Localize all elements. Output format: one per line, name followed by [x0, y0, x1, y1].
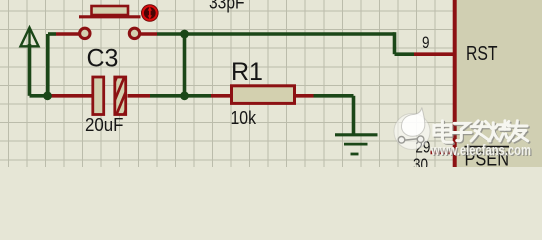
svg-text:10k: 10k — [231, 108, 257, 128]
svg-text:33pF: 33pF — [209, 0, 245, 13]
svg-text:30: 30 — [413, 156, 428, 167]
svg-text:20uF: 20uF — [85, 115, 124, 135]
svg-text:R1: R1 — [231, 58, 263, 86]
svg-text:9: 9 — [422, 34, 430, 52]
svg-text:C3: C3 — [87, 45, 119, 73]
svg-text:www.elecfans.com: www.elecfans.com — [430, 143, 531, 159]
svg-text:RST: RST — [466, 43, 498, 65]
